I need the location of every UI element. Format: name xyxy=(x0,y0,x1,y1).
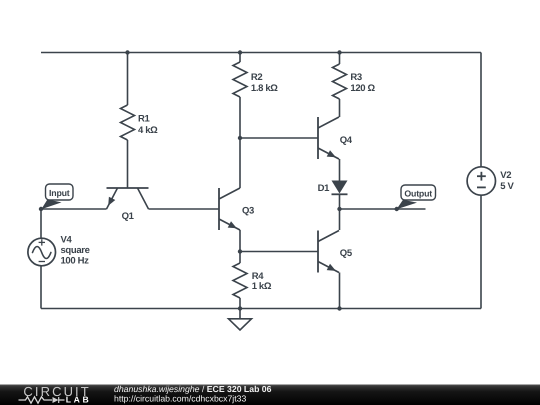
svg-text:1 kΩ: 1 kΩ xyxy=(252,281,272,292)
svg-text:http://circuitlab.com/cdhcxbcx: http://circuitlab.com/cdhcxbcx7jt33 xyxy=(114,393,246,403)
svg-text:D1: D1 xyxy=(318,183,331,194)
svg-text:R1: R1 xyxy=(138,113,151,124)
svg-text:4 kΩ: 4 kΩ xyxy=(138,125,158,136)
svg-text:120 Ω: 120 Ω xyxy=(350,83,375,94)
svg-text:Output: Output xyxy=(404,188,432,198)
svg-text:Q5: Q5 xyxy=(340,248,353,259)
svg-text:5 V: 5 V xyxy=(500,181,514,192)
svg-text:Q3: Q3 xyxy=(242,205,254,216)
svg-text:square: square xyxy=(61,245,90,256)
svg-text:1.8 kΩ: 1.8 kΩ xyxy=(251,83,278,94)
svg-text:Q4: Q4 xyxy=(340,135,353,146)
svg-text:LAB: LAB xyxy=(66,395,91,405)
svg-text:dhanushka.wijesinghe / ECE 320: dhanushka.wijesinghe / ECE 320 Lab 06 xyxy=(114,384,272,394)
svg-text:100 Hz: 100 Hz xyxy=(61,255,90,266)
svg-text:Input: Input xyxy=(49,188,70,198)
svg-text:R3: R3 xyxy=(350,72,362,83)
svg-text:Q1: Q1 xyxy=(122,211,135,222)
svg-text:R2: R2 xyxy=(251,72,263,83)
svg-text:V4: V4 xyxy=(61,234,73,245)
svg-text:V2: V2 xyxy=(500,170,511,181)
